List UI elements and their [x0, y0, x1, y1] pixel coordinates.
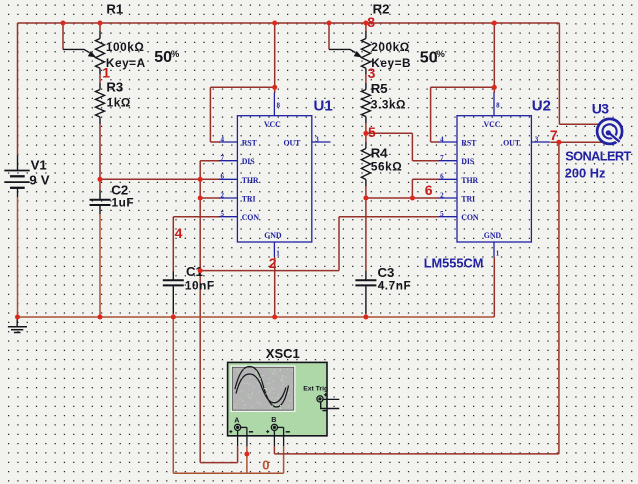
label R2 key [371, 56, 411, 70]
wire R3 bottom to node [99, 124, 101, 179]
svg-text:5: 5 [221, 210, 225, 218]
junction rail C3 [363, 315, 368, 320]
svg-text:A: A [234, 416, 239, 425]
wire C1 bottom to rail [172, 313, 174, 317]
potentiometer R1 wiper [63, 49, 96, 57]
wire R2 top lead [365, 23, 367, 31]
potentiometer R1 body [96, 31, 105, 74]
scope terminal B [266, 415, 290, 447]
label R1 [106, 2, 123, 17]
svg-text:5: 5 [368, 124, 376, 140]
svg-text:3: 3 [368, 65, 376, 81]
wire R1 wiper drop [62, 23, 64, 49]
label Ext Trig [303, 385, 328, 392]
wire net7 vertical [558, 142, 560, 454]
junction rail U1 GND [272, 315, 277, 320]
svg-text:3: 3 [535, 136, 539, 144]
wire U1 CON to C1 [173, 217, 220, 272]
svg-text:OUT: OUT [503, 139, 521, 148]
wire U1 GND drop [274, 257, 276, 317]
wire battery bottom [17, 197, 19, 317]
svg-text:5: 5 [440, 210, 444, 218]
label R2 value [371, 40, 409, 54]
svg-text:CON: CON [242, 213, 260, 222]
svg-text:RST: RST [242, 139, 258, 148]
label R4 [371, 145, 389, 160]
wire scope A+ link [200, 446, 237, 462]
label 200 Hz [565, 165, 606, 180]
node 8 label [367, 14, 375, 30]
svg-text:R1: R1 [106, 2, 123, 17]
svg-text:R5: R5 [371, 81, 388, 96]
label 9 V [29, 173, 49, 188]
wire C3 top lead [365, 198, 367, 271]
svg-text:4: 4 [440, 135, 444, 143]
svg-text:Key=A: Key=A [106, 56, 146, 70]
svg-text:THR: THR [461, 176, 478, 185]
wire scope B- drop [283, 446, 285, 473]
label C1 value [185, 278, 215, 292]
label SONALERT [565, 148, 631, 163]
label R3 value [107, 95, 131, 109]
label R2 [373, 2, 390, 17]
label U1 [314, 97, 333, 114]
svg-text:7: 7 [550, 127, 558, 143]
wire R4 top lead [365, 133, 367, 142]
label C3 [378, 265, 395, 280]
junction node 6 R4/C3 [363, 196, 368, 201]
label R5 [371, 81, 388, 96]
svg-text:4: 4 [221, 135, 225, 143]
node 4 label [175, 225, 183, 241]
svg-text:%: % [171, 49, 180, 60]
svg-text:THR: THR [242, 176, 259, 185]
potentiometer R2 body [361, 31, 370, 74]
wire U2 VCC drop x=494.3 [493, 23, 495, 93]
ext trig terminal [317, 393, 339, 410]
label C3 value [378, 278, 412, 292]
svg-text:200kΩ: 200kΩ [371, 40, 409, 54]
svg-text:100kΩ: 100kΩ [106, 40, 144, 54]
svg-text:1: 1 [102, 65, 110, 81]
wire ground drop to scope [173, 317, 283, 473]
svg-text:R2: R2 [373, 2, 390, 17]
wire net2 to U2 CON [200, 217, 439, 271]
junction rail battery/ground [15, 315, 20, 320]
label U2 [532, 97, 551, 114]
junction node 5 R5/R4 [363, 131, 368, 136]
junction U1 VCC drop / top rail [272, 21, 277, 26]
capacitor C2 [90, 190, 111, 214]
wire C2 top lead [99, 179, 101, 190]
capacitor C1 [163, 272, 184, 314]
svg-text:2: 2 [269, 255, 277, 271]
label XSC1 [266, 346, 300, 361]
label R1 key [106, 56, 146, 70]
svg-text:U1: U1 [314, 97, 333, 114]
label V1 [31, 158, 47, 173]
label R4 value [371, 160, 402, 174]
svg-text:SONALERT: SONALERT [565, 148, 631, 163]
junction node 6 THR/TRI tap [410, 196, 415, 201]
wire R1 top lead [99, 23, 101, 31]
label R1 value [106, 40, 144, 54]
svg-text:200 Hz: 200 Hz [565, 165, 606, 180]
junction U1 THR tap [198, 177, 203, 182]
node 5 label [368, 124, 376, 140]
capacitor C3 [355, 271, 376, 314]
svg-text:4: 4 [175, 225, 183, 241]
wire R5 bottom to node 5 [365, 123, 367, 133]
svg-text:R4: R4 [371, 145, 389, 160]
wire node6 to U2 TRI [366, 197, 439, 199]
wire scope A- drop [246, 446, 248, 473]
label C2 value [112, 195, 135, 209]
wire U1 TRI stub wire [200, 197, 220, 199]
wire U1 VCC drop x=274.7 [274, 23, 276, 93]
svg-text:50: 50 [154, 49, 172, 66]
junction rail C2 [98, 315, 103, 320]
node 3 label [368, 65, 376, 81]
junction U1 TRI tap [198, 196, 203, 201]
wire U2 OUT to sonalert [551, 141, 603, 143]
op-amp U1 (555 timer) [219, 93, 331, 258]
ground [8, 317, 27, 333]
op-amp U2 (555 timer) [439, 93, 550, 258]
label C2 [111, 182, 128, 197]
junction U2 VCC pin 8 [492, 85, 497, 90]
svg-text:56kΩ: 56kΩ [371, 160, 402, 174]
wire top VCC rail y=23 [18, 22, 560, 24]
wire U2 GND drop [493, 257, 495, 317]
svg-text:10nF: 10nF [185, 278, 215, 292]
junction node C2/R3/THR [98, 177, 103, 182]
label R1 percent [154, 49, 180, 66]
battery V1 [4, 155, 29, 197]
junction R2 wiper / top rail [327, 21, 332, 26]
svg-text:Ext Trig: Ext Trig [303, 385, 328, 392]
node 0 label [262, 458, 269, 473]
wire R2 wiper drop [328, 23, 330, 49]
oscilloscope XSC1 body [228, 362, 327, 435]
svg-text:%: % [436, 49, 445, 60]
svg-text:7: 7 [221, 154, 225, 162]
wire battery top [17, 23, 19, 155]
svg-text:VCC: VCC [264, 120, 281, 129]
svg-text:GND: GND [264, 231, 282, 240]
svg-text:CON: CON [461, 213, 479, 222]
node 2 label [269, 255, 277, 271]
junction U1 VCC pin 8 [272, 85, 277, 90]
wire C3 bottom to rail [365, 313, 367, 317]
label C1 [186, 264, 203, 279]
label R5 value [371, 97, 406, 111]
svg-text:2: 2 [221, 191, 225, 199]
svg-text:1uF: 1uF [112, 195, 135, 209]
svg-text:9 V: 9 V [29, 173, 49, 188]
svg-text:TRI: TRI [242, 195, 256, 204]
wire R4 bottom lead [365, 186, 367, 198]
svg-text:U3: U3 [592, 101, 610, 117]
svg-text:LM555CM: LM555CM [424, 255, 484, 270]
node 7 label [550, 127, 558, 143]
wire ground rail y=317 [18, 316, 495, 318]
svg-text:R3: R3 [106, 79, 123, 94]
junction net2 to U2 CON [198, 268, 203, 273]
svg-text:XSC1: XSC1 [266, 346, 300, 361]
label LM555CM [424, 255, 484, 270]
resistor R3 [96, 83, 105, 124]
resistor R4 [361, 142, 370, 186]
junction U2 VCC drop / top rail [492, 21, 497, 26]
sonalert U3 symbol [597, 119, 622, 144]
wire node 3 R2-R5 [365, 74, 367, 83]
svg-text:GND: GND [484, 231, 502, 240]
wire node5 to U2 DIS [366, 133, 439, 160]
junction node 7 U2 OUT [556, 140, 561, 145]
wire net7 to scope B+ [274, 446, 559, 454]
wire U1 DIS rail [200, 161, 220, 463]
svg-text:OUT: OUT [284, 139, 302, 148]
svg-text:7: 7 [440, 154, 444, 162]
junction rail C1 [171, 315, 176, 320]
wire U2 VCC-RST link [431, 87, 495, 142]
wire node6 up to U2 THR [412, 179, 439, 198]
wire right VCC drop to sonalert [559, 23, 599, 124]
svg-text:6: 6 [221, 173, 225, 181]
svg-text:2: 2 [440, 191, 444, 199]
svg-text:6: 6 [440, 173, 444, 181]
wire C2 bottom to rail [99, 214, 101, 317]
node 1 label [102, 65, 110, 81]
junction R2 top / top rail [363, 21, 368, 26]
svg-text:3.3kΩ: 3.3kΩ [371, 97, 406, 111]
wire U1 VCC-RST link [210, 87, 274, 142]
svg-text:DIS: DIS [461, 157, 475, 166]
svg-text:1: 1 [276, 250, 280, 258]
wire node 1 R1-R3 [99, 74, 101, 83]
label R2 percent [420, 49, 446, 66]
svg-text:0: 0 [262, 458, 269, 473]
svg-text:6: 6 [425, 182, 433, 198]
svg-text:V1: V1 [31, 158, 47, 173]
junction R1 top / top rail [98, 21, 103, 26]
resistor R5 [361, 83, 370, 123]
svg-text:1kΩ: 1kΩ [107, 95, 131, 109]
svg-text:8: 8 [496, 102, 500, 110]
svg-text:8: 8 [277, 102, 281, 110]
wire THR node to U1 [100, 178, 220, 180]
node 6 label [425, 182, 433, 198]
label R3 [106, 79, 123, 94]
svg-text:B: B [271, 415, 276, 424]
junction scope A- joint [244, 452, 249, 457]
svg-text:RST: RST [461, 139, 477, 148]
svg-text:1: 1 [496, 250, 500, 258]
svg-text:3: 3 [315, 136, 319, 144]
svg-text:VCC: VCC [484, 120, 501, 129]
svg-text:TRI: TRI [461, 195, 475, 204]
svg-text:Key=B: Key=B [371, 56, 411, 70]
svg-text:8: 8 [367, 14, 375, 30]
scope terminal A [229, 416, 253, 447]
junction R1 wiper / top rail [61, 21, 66, 26]
svg-text:DIS: DIS [242, 157, 256, 166]
potentiometer R2 wiper [329, 49, 362, 57]
svg-text:4.7nF: 4.7nF [378, 278, 412, 292]
svg-text:50: 50 [420, 49, 438, 66]
label U3 [592, 101, 610, 117]
svg-text:U2: U2 [532, 97, 551, 114]
